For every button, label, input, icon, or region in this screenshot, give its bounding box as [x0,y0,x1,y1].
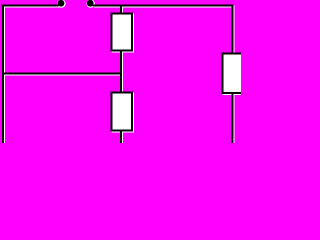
wire shadow: left rail [3,6,5,145]
halo of junction dot 1 [57,0,65,8]
wire shadow: R1-R2 link [121,51,123,94]
junction dot 1 [58,0,65,7]
wire: top bus right segment [93,5,234,7]
wire shadow: middle branch [3,74,122,76]
wire shadow: R2 to bottom edge [121,131,123,144]
white drop-shadow layer (all strokes offset +1,+1) [3,6,250,145]
wire: R2 to bottom edge [120,130,122,143]
wire: left rail [2,5,4,144]
wire shadow: right rail lower [233,94,235,145]
resistor R2 (box symbol, centre bottom) [112,93,133,131]
wire: R1-R2 link [120,50,122,93]
wire: right rail upper [232,5,234,55]
wire shadow: center drop to R1 [121,7,123,16]
wire: right rail lower [232,93,234,144]
resistor R1 (box symbol, centre top) [112,14,133,51]
wire: top bus left segment [2,5,59,7]
wire: center drop to R1 [120,6,122,15]
box shadow: resistor R2 [113,94,134,132]
wire shadow: top bus left segment [3,6,60,8]
wire: middle branch [2,73,121,75]
box shadow: resistor R1 [113,15,134,52]
halo of junction dot 2 [86,0,94,8]
junction dot 2 [87,0,94,7]
wire shadow: right rail upper [233,6,235,56]
black ink layer [2,5,249,144]
box shadow: resistor R3 [224,55,250,95]
resistor R3 (box symbol, right edge, cut off) [223,54,249,94]
wire shadow: top bus right segment [94,6,235,8]
